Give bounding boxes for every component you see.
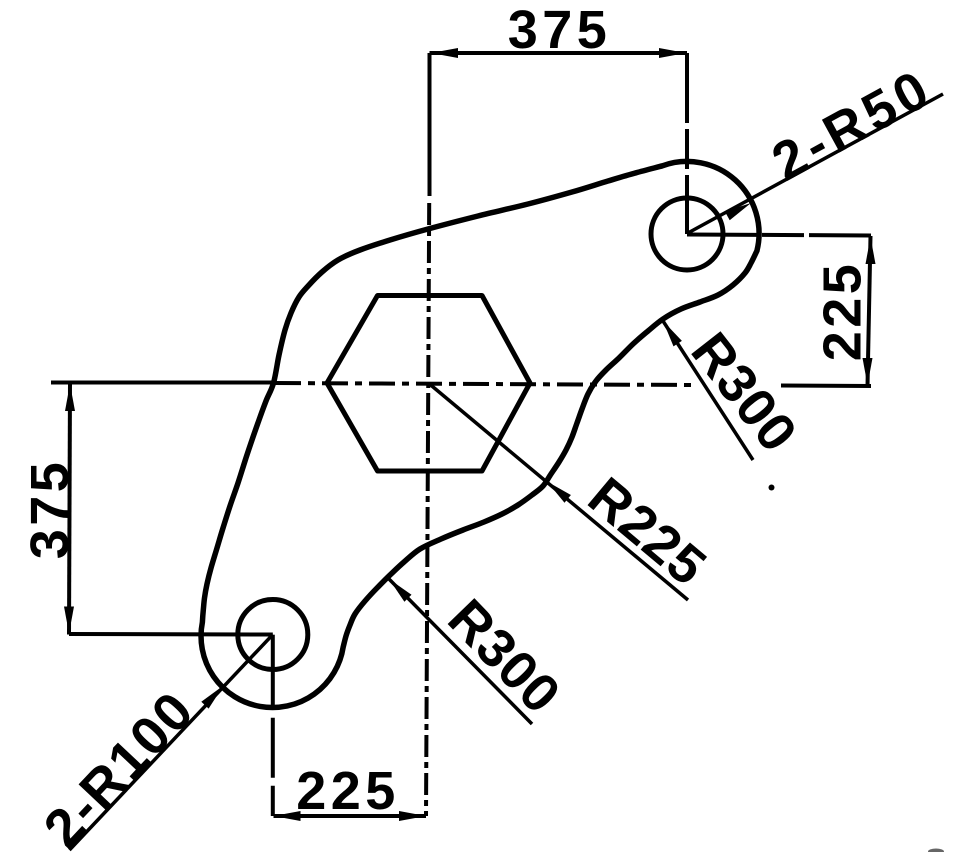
leader 2-R50 bbox=[687, 94, 943, 234]
svg-text:225: 225 bbox=[296, 761, 400, 821]
centerline vertical top hole bbox=[685, 53, 689, 234]
leader R300 top bbox=[663, 321, 753, 460]
svg-text:375: 375 bbox=[508, 0, 612, 60]
dimension 225 right bbox=[868, 236, 871, 386]
dimension 375 left bbox=[69, 383, 70, 635]
extension horizontal bottom hole bbox=[69, 632, 273, 637]
centerline vertical hexagon solid top bbox=[428, 53, 432, 196]
svg-text:375: 375 bbox=[20, 459, 80, 560]
extension vertical bottom hole bbox=[271, 635, 275, 816]
centerline horizontal left solid bbox=[51, 381, 275, 385]
stray dot bbox=[769, 485, 775, 491]
hole top-right R50 bbox=[651, 198, 723, 270]
part outline bbox=[201, 161, 759, 707]
hexagon cutout bbox=[327, 296, 530, 472]
edge speck bottom-right bbox=[928, 849, 944, 852]
centerline horizontal top hole bbox=[687, 235, 871, 236]
centerline horizontal dashed bbox=[275, 383, 694, 385]
dimension 375 top bbox=[430, 51, 688, 55]
leader 2-R100 bbox=[69, 635, 272, 851]
leader R225 bbox=[430, 384, 689, 600]
centerline vertical hexagon dashed bbox=[426, 203, 429, 816]
svg-text:225: 225 bbox=[813, 261, 873, 362]
leader R300 bottom bbox=[389, 579, 532, 724]
hole bottom-left R50 bbox=[238, 600, 308, 670]
centerline horizontal right solid bbox=[781, 384, 871, 389]
dimension 225 bottom bbox=[274, 814, 427, 818]
